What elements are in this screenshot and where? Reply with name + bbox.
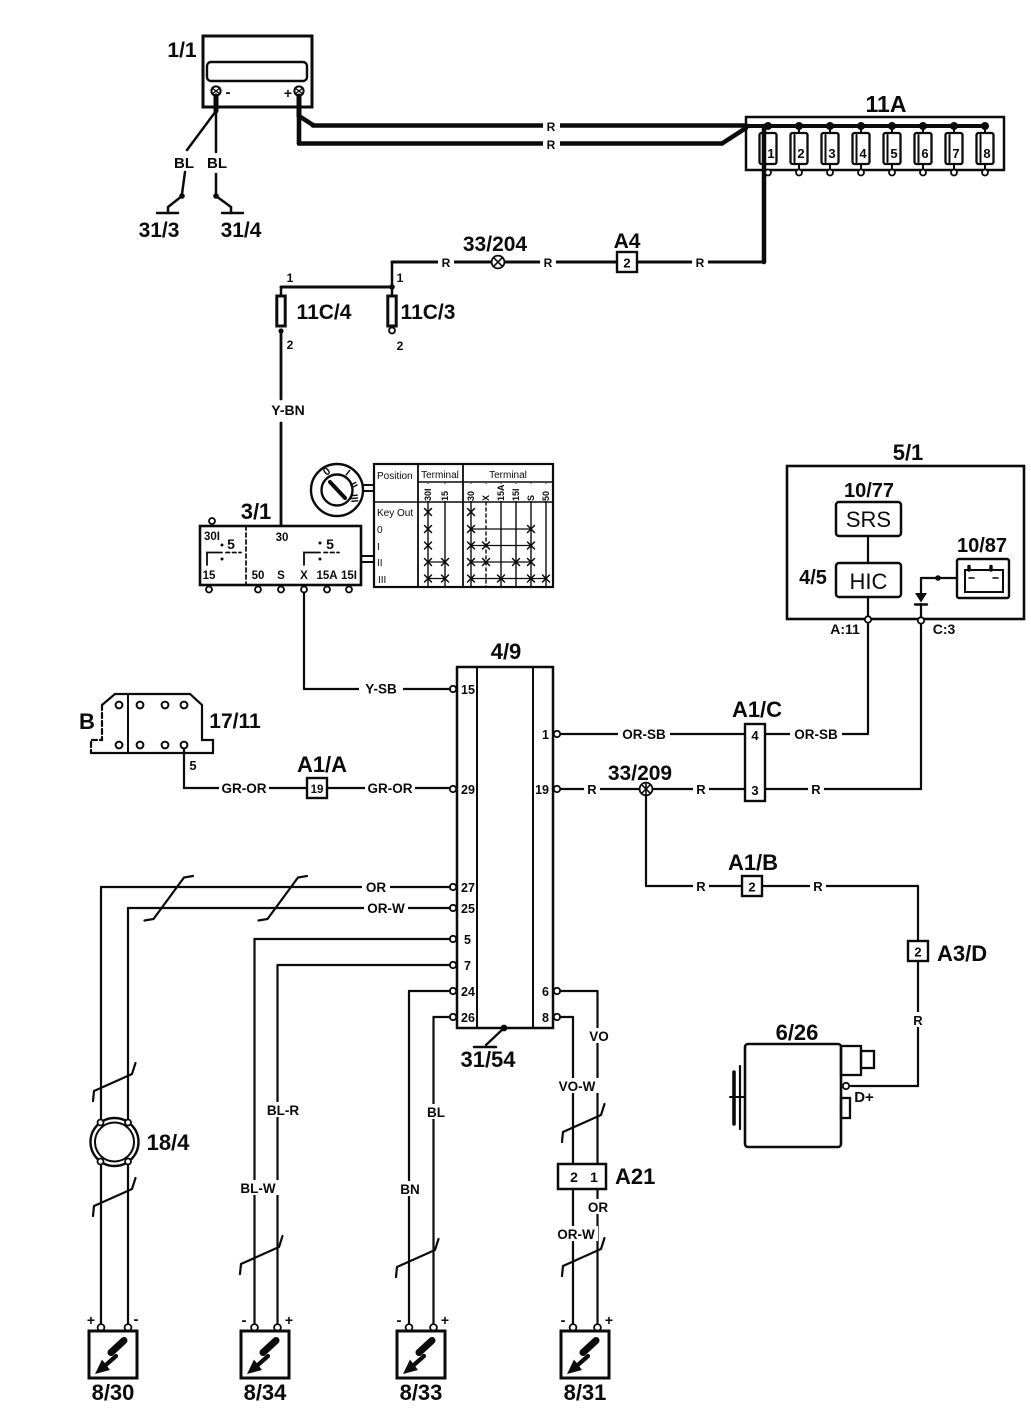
- svg-text:R: R: [913, 1013, 923, 1028]
- wire BL from minus terminal to ground 31/4: [207, 111, 227, 195]
- svg-text:OR: OR: [588, 1200, 609, 1215]
- svg-text:5/1: 5/1: [893, 440, 924, 465]
- 4/9 pin 6: [542, 985, 560, 999]
- svg-text:1: 1: [397, 271, 404, 285]
- wire R battery plus to fuse box 11A (lower): [299, 116, 746, 152]
- terminal A:11: [830, 597, 871, 637]
- svg-text:I: I: [377, 542, 380, 553]
- 4/9 pin 29: [450, 783, 475, 797]
- 4/9 pin 15: [450, 683, 475, 697]
- wire R connector A1/C pin 3 to 5/1 C:3: [765, 624, 921, 797]
- svg-text:VO-W: VO-W: [559, 1079, 596, 1094]
- ground 31/54: [460, 1025, 516, 1072]
- svg-text:25: 25: [461, 902, 475, 916]
- harness break on OR/OR-W pair (right): [259, 876, 308, 921]
- svg-text:1: 1: [287, 271, 294, 285]
- svg-text:C:3: C:3: [933, 621, 956, 637]
- svg-text:R: R: [547, 120, 556, 134]
- svg-text:29: 29: [461, 783, 475, 797]
- fuse 3: [822, 122, 839, 176]
- svg-text:R: R: [696, 256, 705, 270]
- wire 10/87 to diode: [921, 575, 957, 593]
- svg-text:+: +: [285, 1312, 293, 1328]
- svg-text:R: R: [811, 782, 821, 797]
- svg-text:17/11: 17/11: [209, 710, 261, 733]
- wire label BL: [422, 1104, 450, 1120]
- harness break on OR/OR-W pair below A21: [562, 1238, 605, 1276]
- fuse 1 feed wire (thick): [762, 126, 767, 262]
- alternator terminal D+: [843, 1083, 874, 1106]
- ground 31/3: [139, 193, 185, 242]
- svg-text:II: II: [377, 558, 383, 569]
- wire label BN: [396, 1181, 424, 1197]
- svg-text:R: R: [813, 879, 823, 894]
- svg-text:A1/B: A1/B: [728, 850, 778, 875]
- svg-text:27: 27: [461, 881, 475, 895]
- terminal C:3: [918, 604, 956, 637]
- svg-text:-: -: [242, 1312, 247, 1329]
- svg-text:R: R: [547, 138, 556, 152]
- svg-text:10/87: 10/87: [957, 535, 1007, 557]
- 4/9 pin 8: [542, 1011, 560, 1025]
- ignition switch internal link 5 (left): [207, 536, 241, 565]
- svg-text:5: 5: [464, 933, 471, 947]
- svg-text:Y-BN: Y-BN: [271, 402, 304, 418]
- harness break on VO/VO-W pair: [562, 1104, 605, 1142]
- wire VO 4/9 pin 6 to connector A21 pin 1: [560, 991, 611, 1164]
- svg-text:6/26: 6/26: [776, 1020, 819, 1045]
- wire R splice 33/209 to connector A1/B: [646, 795, 742, 894]
- SRS lamp 10/77: [836, 480, 901, 536]
- svg-text:19: 19: [535, 783, 549, 797]
- svg-text:1/1: 1/1: [167, 39, 197, 62]
- svg-text:+: +: [87, 1312, 95, 1328]
- svg-text:A3/D: A3/D: [937, 941, 987, 966]
- svg-text:BL: BL: [207, 155, 227, 172]
- alternator 6/26: [730, 1020, 874, 1147]
- svg-text:R: R: [442, 256, 451, 270]
- ground 31/4: [213, 193, 262, 242]
- svg-text:R: R: [696, 782, 706, 797]
- ignition switch internal link 5 (right): [304, 536, 339, 565]
- wire SRS to HIC: [867, 536, 869, 563]
- table column labels: [423, 484, 551, 501]
- svg-text:15I: 15I: [341, 570, 357, 582]
- wire Y-BN from fuse 11C/4 to ignition switch 3/1 terminal 30: [271, 331, 304, 526]
- control unit 5/1: [787, 440, 1024, 619]
- svg-text:8: 8: [542, 1011, 549, 1025]
- svg-text:D+: D+: [854, 1089, 874, 1106]
- wire BL from minus terminal to ground 31/3: [174, 111, 216, 194]
- wire OR 4/9 pin 27 to clock spring 18/4: [101, 879, 450, 1324]
- wire R 4/9 pin 19 to connector A1/C pin 3: [560, 781, 745, 797]
- connector A1/A pin 19: [297, 752, 347, 798]
- harness break on OR/OR-W pair (left): [145, 876, 194, 921]
- svg-text:31/3: 31/3: [139, 219, 180, 242]
- wire OR-SB 4/9 pin 1 to connector A1/C pin 4: [560, 726, 745, 742]
- squib 8/31: [561, 1312, 614, 1405]
- svg-text:5: 5: [189, 758, 196, 773]
- svg-text:4/9: 4/9: [491, 639, 522, 664]
- svg-text:26: 26: [461, 1011, 475, 1025]
- svg-text:A1/A: A1/A: [297, 752, 347, 777]
- wire GR-OR connector A1/A to 4/9 pin 29: [327, 780, 450, 796]
- svg-text:BN: BN: [400, 1182, 420, 1197]
- fuse 1: [760, 122, 777, 176]
- svg-text:2: 2: [570, 1169, 578, 1185]
- wire label BL-R: [262, 1102, 304, 1118]
- svg-text:15: 15: [461, 683, 475, 697]
- svg-text:2: 2: [748, 880, 755, 895]
- svg-text:8/30: 8/30: [92, 1380, 135, 1405]
- svg-text:7: 7: [952, 146, 959, 161]
- svg-text:30: 30: [466, 491, 476, 501]
- wire 4/9 pin 5 to squib 8/34: [255, 939, 451, 1324]
- harness break on 8/33 wires: [396, 1239, 439, 1277]
- connector A3/D pin 2: [908, 941, 987, 966]
- fuse 8: [977, 122, 994, 176]
- svg-text:8/34: 8/34: [244, 1380, 288, 1405]
- svg-text:31/4: 31/4: [221, 219, 262, 242]
- svg-text:11A: 11A: [866, 91, 907, 117]
- svg-text:4: 4: [751, 728, 759, 743]
- svg-text:4/5: 4/5: [799, 567, 827, 589]
- svg-text:1: 1: [590, 1169, 598, 1185]
- wire R battery plus to fuse box 11A (upper): [299, 116, 746, 134]
- svg-text:0: 0: [377, 525, 383, 536]
- svg-text:OR: OR: [366, 880, 387, 895]
- wire Y-SB ignition switch X to 4/9 pin 15: [304, 593, 450, 697]
- wire between 11C/3 and 11C/4 pin 1: [281, 286, 392, 289]
- svg-text:3: 3: [828, 146, 835, 161]
- ignition switch terminal 30I: [204, 518, 220, 543]
- svg-text:S: S: [526, 495, 536, 501]
- svg-text:15: 15: [203, 570, 216, 582]
- ignition switch terminal 15: [203, 570, 216, 593]
- svg-text:HIC: HIC: [850, 569, 888, 594]
- svg-text:-: -: [561, 1312, 566, 1329]
- squib 8/33: [397, 1312, 450, 1405]
- fuse 4: [853, 122, 870, 176]
- 4/9 pin 1: [542, 728, 560, 742]
- fuse 11C/4: [277, 271, 352, 352]
- svg-text:2: 2: [914, 945, 921, 960]
- wire R from fuse 1 to fuses 11C: [392, 255, 764, 287]
- link ignition switch to position table: [362, 556, 374, 562]
- 4/9 pin 26: [450, 1011, 475, 1025]
- fuse box 11A: [746, 91, 1004, 170]
- clock spring contact reel 18/4: [91, 1118, 191, 1166]
- wire OR-W connector A21 pin 2 to squib 8/31: [554, 1189, 598, 1324]
- svg-text:A4: A4: [614, 230, 641, 253]
- table contact marks row Key Out: [425, 509, 475, 516]
- svg-text:30: 30: [276, 532, 289, 544]
- svg-text:6: 6: [921, 146, 928, 161]
- fuse 11C/3: [388, 271, 456, 353]
- connector A1/B pin 2: [728, 850, 778, 896]
- svg-text:5: 5: [227, 536, 235, 552]
- svg-text:GR-OR: GR-OR: [368, 781, 413, 796]
- svg-text:S: S: [277, 570, 285, 582]
- svg-text:1: 1: [767, 146, 774, 161]
- harness break on 8/34 wires: [240, 1236, 283, 1274]
- svg-text:2: 2: [287, 338, 294, 352]
- 4/9 pin 7: [450, 959, 471, 973]
- battery 1/1 plus terminal: [284, 85, 304, 116]
- fuse 6: [915, 122, 932, 176]
- svg-text:-: -: [134, 1311, 139, 1328]
- ignition switch 3/1: [200, 499, 361, 585]
- ignition switch terminal 15I: [341, 570, 357, 593]
- svg-text:Terminal: Terminal: [421, 470, 459, 481]
- 4/9 pin 27: [450, 881, 475, 895]
- svg-text:8/31: 8/31: [564, 1380, 607, 1405]
- svg-text:33/204: 33/204: [463, 233, 528, 256]
- svg-text:OR-W: OR-W: [557, 1227, 595, 1242]
- svg-text:11C/4: 11C/4: [297, 301, 352, 324]
- table contact marks row I: [425, 542, 535, 549]
- wire BL 4/9 pin 26 to squib 8/33: [434, 1017, 451, 1324]
- svg-text:BL: BL: [427, 1105, 445, 1120]
- wire GR-OR 17/11 pin 5 to connector A1/A: [184, 749, 307, 797]
- svg-text:15A: 15A: [316, 570, 337, 582]
- svg-text:8: 8: [983, 146, 990, 161]
- svg-text:6: 6: [542, 985, 549, 999]
- wire VO-W 4/9 pin 8 to connector A21 pin 2: [555, 1017, 599, 1164]
- svg-text:7: 7: [464, 959, 471, 973]
- svg-text:R: R: [544, 256, 553, 270]
- svg-text:50: 50: [252, 570, 265, 582]
- ignition key symbol: [311, 464, 374, 516]
- svg-text:15A: 15A: [496, 484, 506, 501]
- svg-text:-: -: [226, 84, 231, 101]
- voltage source 10/87: [957, 535, 1009, 598]
- svg-text:31/54: 31/54: [460, 1047, 516, 1072]
- table contact marks row 0: [425, 526, 535, 533]
- svg-text:X: X: [481, 495, 491, 501]
- svg-text:+: +: [284, 85, 292, 101]
- wire OR connector A21 pin 1 to squib 8/31: [584, 1189, 611, 1324]
- svg-text:GR-OR: GR-OR: [222, 781, 267, 796]
- connector A1/C: [732, 697, 782, 801]
- svg-text:11C/3: 11C/3: [401, 301, 456, 324]
- svg-text:30I: 30I: [204, 531, 220, 543]
- ignition switch terminal 15A: [316, 570, 337, 593]
- svg-text:10/77: 10/77: [844, 480, 894, 502]
- squib 8/34: [241, 1312, 293, 1405]
- svg-text:33/209: 33/209: [608, 762, 672, 785]
- svg-text:19: 19: [311, 784, 324, 796]
- svg-text:Position: Position: [377, 471, 413, 482]
- splice 33/209: [608, 762, 672, 795]
- svg-text:X: X: [300, 570, 308, 582]
- svg-text:A21: A21: [615, 1164, 655, 1189]
- harness break below 18/4: [93, 1178, 136, 1216]
- svg-text:4: 4: [859, 146, 867, 161]
- svg-text:24: 24: [461, 985, 475, 999]
- diode: [915, 593, 927, 605]
- wire OR-W 4/9 pin 25 to clock spring 18/4: [128, 900, 450, 1324]
- connector A21: [558, 1164, 655, 1189]
- svg-text:8/33: 8/33: [400, 1380, 443, 1405]
- svg-text:3: 3: [751, 783, 758, 798]
- battery 1/1 minus terminal: [211, 84, 230, 111]
- svg-text:A:11: A:11: [830, 621, 860, 637]
- svg-text:BL-R: BL-R: [267, 1103, 299, 1118]
- svg-text:R: R: [587, 782, 597, 797]
- svg-text:+: +: [605, 1312, 613, 1328]
- wire R connector A3/D to alternator 6/26 D+: [851, 961, 926, 1086]
- svg-text:BL-W: BL-W: [240, 1181, 275, 1196]
- svg-text:2: 2: [623, 256, 630, 271]
- 4/9 pin 25: [450, 902, 475, 916]
- svg-text:18/4: 18/4: [147, 1130, 191, 1155]
- wire label BL-W: [236, 1180, 280, 1196]
- svg-text:+: +: [441, 1312, 449, 1328]
- svg-text:SRS: SRS: [846, 507, 891, 532]
- ignition switch terminal 50: [252, 570, 265, 593]
- crash sensor 17/11: [79, 694, 261, 753]
- svg-text:OR-SB: OR-SB: [622, 727, 666, 742]
- svg-text:50: 50: [541, 491, 551, 501]
- wire OR-SB connector A1/C pin 4 to 5/1 A:11: [765, 623, 868, 742]
- svg-text:Key Out: Key Out: [377, 508, 413, 519]
- svg-text:1: 1: [542, 728, 549, 742]
- 4/9 pin 5: [450, 933, 471, 947]
- ignition switch terminal X: [300, 570, 308, 593]
- SRS control unit 4/9: [457, 639, 553, 1028]
- svg-text:III: III: [378, 575, 386, 586]
- wire 4/9 pin 7 to squib 8/34: [278, 965, 451, 1324]
- svg-text:-: -: [397, 1312, 402, 1329]
- wire R connector A1/B to connector A3/D: [762, 878, 918, 941]
- table contact marks row II: [425, 559, 535, 566]
- svg-text:15I: 15I: [511, 488, 521, 501]
- fuse 5: [884, 122, 901, 176]
- fuse 2: [791, 122, 808, 176]
- svg-text:A1/C: A1/C: [732, 697, 782, 722]
- svg-text:VO: VO: [589, 1029, 609, 1044]
- svg-text:BL: BL: [174, 155, 194, 172]
- splice 33/204: [463, 233, 528, 268]
- squib 8/30: [87, 1311, 139, 1405]
- battery 1/1: [167, 36, 312, 107]
- svg-text:Y-SB: Y-SB: [365, 682, 397, 697]
- ignition switch terminal S: [277, 570, 285, 593]
- svg-text:2: 2: [797, 146, 804, 161]
- svg-text:30I: 30I: [423, 488, 433, 501]
- svg-text:III: III: [348, 494, 360, 504]
- ignition position table: [374, 464, 553, 587]
- svg-text:R: R: [696, 879, 706, 894]
- svg-text:OR-W: OR-W: [367, 901, 405, 916]
- svg-text:3/1: 3/1: [241, 499, 272, 524]
- fuse 7: [946, 122, 963, 176]
- svg-text:2: 2: [397, 339, 404, 353]
- 4/9 pin 24: [450, 985, 475, 999]
- svg-text:B: B: [79, 709, 95, 734]
- svg-text:5: 5: [326, 536, 334, 552]
- svg-text:OR-SB: OR-SB: [794, 727, 838, 742]
- table contact marks row III: [425, 575, 550, 582]
- harness break above 18/4: [93, 1063, 136, 1101]
- table column guide lines: [428, 484, 546, 587]
- svg-text:15: 15: [440, 491, 450, 501]
- node junction at fuses 11C: [389, 284, 395, 290]
- connector A4 pin 2: [614, 230, 641, 272]
- svg-text:Terminal: Terminal: [489, 470, 527, 481]
- 4/9 pin 19: [535, 783, 560, 797]
- table row labels: [377, 508, 413, 586]
- wire BN 4/9 pin 24 to squib 8/33: [409, 991, 450, 1324]
- svg-text:5: 5: [890, 146, 897, 161]
- HIC module 4/5: [799, 563, 901, 597]
